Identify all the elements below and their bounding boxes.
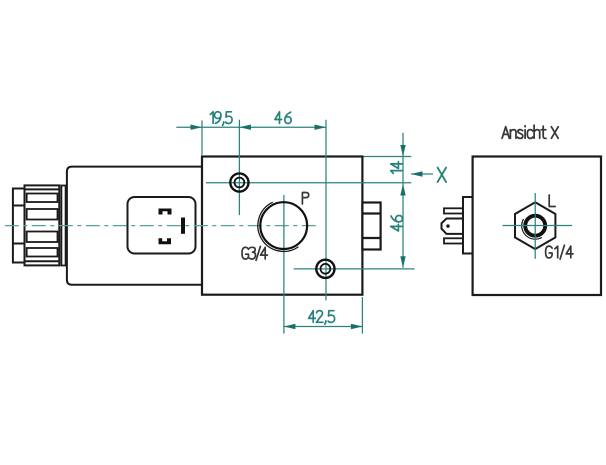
- connector plug body: [442, 219, 464, 234]
- arrow 46v up: [400, 184, 405, 196]
- arrow 42,5 right: [351, 324, 363, 329]
- connector pin bottom: [159, 238, 172, 244]
- arrow 19,5: [191, 125, 203, 130]
- top dimension line: [176, 126, 326, 128]
- view arrow X head: [411, 171, 423, 176]
- bottom mounting hole: [316, 260, 334, 278]
- extension line block left top: [201, 120, 203, 155]
- G1/4 thread arc: [522, 219, 542, 239]
- label P: [302, 193, 308, 205]
- connector box on coil: [128, 197, 196, 254]
- block top extension line right: [364, 156, 412, 158]
- bottom hole horizontal centerline: [294, 268, 415, 270]
- label 19,5: [210, 112, 232, 126]
- port P vertical centerline: [283, 195, 285, 334]
- knurl slot 3: [27, 232, 58, 243]
- top hole vertical centerline: [238, 120, 240, 215]
- label 46 top: [275, 112, 291, 124]
- label L: [549, 195, 555, 207]
- port P bore circle: [260, 202, 307, 249]
- label X: [438, 168, 447, 182]
- hex nut: [515, 202, 555, 249]
- knurled nut body: [25, 185, 60, 265]
- label 46 rotated: [391, 216, 403, 232]
- connector earth pin bar: [181, 218, 185, 234]
- hex vertical centerline: [534, 193, 536, 259]
- connector pin top: [159, 209, 172, 215]
- port P thread arc: [258, 202, 299, 251]
- knurl slot 2: [27, 209, 58, 220]
- washer plate: [61, 186, 65, 266]
- label G1/4: [546, 245, 573, 259]
- top mounting hole: [230, 173, 248, 191]
- label 14 rotated: [391, 162, 403, 174]
- knurl slot 4: [27, 248, 58, 257]
- arrow 42,5 left: [284, 324, 296, 329]
- label G3/4: [242, 246, 267, 260]
- arrow 46 right: [315, 125, 327, 130]
- title Ansicht X: [502, 125, 558, 138]
- G1/4 bore ring: [525, 216, 545, 236]
- right vertical dimension line: [402, 133, 404, 268]
- bottom hole vertical extension line: [325, 120, 327, 301]
- arrow 14 down: [400, 145, 405, 157]
- valve block body: [202, 157, 362, 295]
- hex horizontal centerline: [503, 225, 573, 227]
- label 42,5: [309, 311, 335, 325]
- solenoid end cap: [13, 189, 25, 263]
- knurl slot 1: [27, 194, 58, 203]
- block right bottom extension line: [361, 297, 363, 334]
- view arrow X line: [411, 173, 433, 175]
- arrow 46 left: [239, 125, 251, 130]
- side port boss: [362, 203, 380, 250]
- mounting plate: [463, 197, 473, 254]
- connector prong top: [444, 208, 463, 213]
- solenoid coil body: [67, 167, 206, 285]
- arrow 46v down: [400, 256, 405, 268]
- plug centre dot: [446, 224, 449, 227]
- view X body square: [473, 157, 601, 296]
- main horizontal centerline: [5, 225, 320, 227]
- top hole horizontal centerline: [206, 182, 411, 184]
- connector prong bottom: [444, 238, 463, 243]
- bottom dimension line 42,5: [284, 326, 363, 328]
